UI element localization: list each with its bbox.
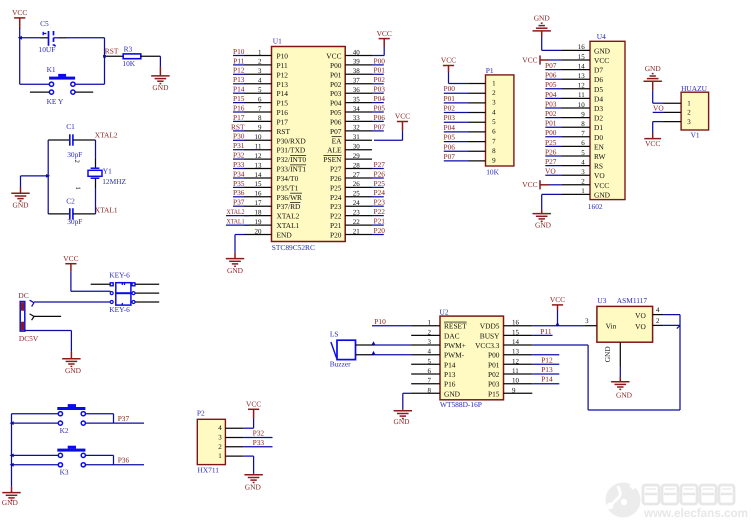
pin 5 P14 of U1 (244, 86, 288, 98)
svg-text:P21: P21 (374, 217, 386, 226)
svg-text:8: 8 (581, 120, 585, 128)
svg-text:P15: P15 (488, 389, 500, 398)
pin 8 GND of U2 (411, 386, 460, 398)
wire net P11 at U2 pin 15 (532, 327, 552, 336)
pin 3 of P2 (218, 434, 243, 442)
svg-text:GND: GND (535, 220, 552, 229)
svg-text:GND: GND (245, 482, 262, 491)
power VCC (U4 pin 2) (522, 180, 562, 189)
svg-text:VO: VO (594, 171, 605, 180)
wire U2 VDD5 pin 16 to U3 Vin (532, 325, 584, 327)
pin 7 P16 of U1 (244, 105, 288, 117)
svg-text:P03: P03 (330, 89, 342, 98)
pin 3 Vin of U3 (584, 317, 616, 331)
svg-text:VO: VO (545, 167, 556, 176)
pin 12 D5 of U4 (562, 82, 604, 94)
wire C5 to RST node (54, 38, 105, 84)
pin 26 P25 of U1 (330, 180, 372, 192)
svg-text:P22: P22 (374, 207, 386, 216)
svg-text:KEY-6: KEY-6 (109, 270, 130, 279)
pin 3 of V1 (663, 118, 691, 126)
svg-text:P31: P31 (233, 141, 245, 150)
wire U2 GND pin 8 to ground (403, 393, 412, 411)
svg-text:P10: P10 (374, 317, 386, 326)
wire K2/K3 ground rail (11, 414, 13, 487)
svg-text:2: 2 (73, 160, 80, 164)
svg-text:P22: P22 (330, 212, 342, 221)
svg-text:ASM1117: ASM1117 (617, 296, 648, 305)
svg-text:EN: EN (594, 142, 605, 151)
switch KEY-6 (109, 270, 135, 314)
svg-text:P07: P07 (330, 127, 342, 136)
svg-text:2: 2 (218, 443, 222, 451)
pin 31 EA of U1 (332, 133, 372, 145)
svg-text:P01: P01 (545, 119, 557, 128)
svg-text:WT588D-16P: WT588D-16P (440, 400, 482, 409)
wire K1 lower-right stub (75, 91, 93, 93)
svg-text:3: 3 (687, 118, 691, 126)
svg-text:P20: P20 (374, 226, 386, 235)
svg-text:P13: P13 (541, 365, 553, 374)
svg-text:1: 1 (74, 186, 81, 189)
pin 4 VO of U3 (635, 306, 663, 320)
svg-text:7: 7 (258, 105, 262, 113)
svg-text:HUAZU: HUAZU (681, 84, 708, 93)
wire net P21 at U1 pin 22 (372, 217, 386, 226)
svg-text:10: 10 (578, 101, 586, 109)
svg-text:P24: P24 (374, 188, 386, 197)
svg-text:27: 27 (353, 171, 361, 179)
ground GND (U1 pin 20) (226, 259, 244, 275)
wire net P07 at U4 pin 14 (545, 61, 562, 70)
svg-text:KEY-6: KEY-6 (109, 305, 130, 314)
svg-text:24: 24 (353, 199, 361, 207)
svg-text:VCC: VCC (550, 295, 565, 304)
wire V1 pin 1 to GND (653, 81, 664, 103)
svg-text:5: 5 (428, 357, 432, 365)
wire net P04 at P1 pin 6 (444, 123, 469, 132)
svg-text:8: 8 (428, 386, 432, 394)
wire net P20 at U1 pin 21 (372, 226, 386, 235)
svg-text:P11: P11 (540, 327, 552, 336)
svg-text:C1: C1 (66, 122, 75, 131)
wire net P04 at U4 pin 11 (545, 90, 562, 99)
pin 9 of P1 (468, 157, 496, 165)
svg-text:15: 15 (512, 328, 520, 336)
pin 6 of P1 (468, 128, 496, 136)
svg-text:GND: GND (616, 391, 633, 400)
svg-text:16: 16 (512, 319, 520, 327)
svg-text:30: 30 (353, 143, 361, 151)
pin 15 BUSY of U2 (480, 328, 533, 340)
svg-text:13: 13 (512, 348, 520, 356)
svg-text:P2: P2 (197, 409, 205, 418)
pin 19 XTAL1 of U1 (244, 218, 299, 230)
svg-text:P14: P14 (541, 375, 553, 384)
svg-text:XTAL2: XTAL2 (227, 209, 245, 216)
svg-text:13: 13 (578, 72, 586, 80)
svg-text:www.elecfans.com: www.elecfans.com (643, 506, 748, 520)
svg-text:VCC: VCC (594, 181, 609, 190)
resistor network P1 10K body (486, 66, 514, 177)
pin 10 D3 of U4 (562, 101, 604, 113)
pin 4 of P2 (218, 424, 243, 432)
svg-text:14: 14 (578, 62, 586, 70)
regulator U3 ASM1117 body (597, 296, 653, 342)
wire net P07 at P1 pin 9 (444, 152, 469, 161)
svg-text:P11: P11 (277, 61, 289, 70)
pin 5 RW of U4 (562, 149, 606, 161)
svg-text:Y1: Y1 (103, 167, 112, 176)
pin 8 P17 of U1 (244, 114, 288, 126)
module V1 HUAZU body (681, 84, 709, 139)
svg-text:1: 1 (492, 79, 496, 87)
svg-text:4: 4 (492, 108, 496, 116)
wire K2 left connections (12, 414, 59, 423)
svg-text:P36: P36 (118, 455, 130, 464)
svg-text:P14: P14 (444, 360, 456, 369)
svg-text:P03: P03 (545, 99, 557, 108)
svg-text:P20: P20 (330, 231, 342, 240)
pin 10 P03 of U2 (488, 377, 532, 389)
svg-text:P27: P27 (545, 157, 557, 166)
svg-text:VCC: VCC (522, 180, 537, 189)
svg-text:P31/TXD: P31/TXD (277, 146, 306, 155)
svg-text:U2: U2 (440, 307, 449, 316)
wire net P01 at U4 pin 8 (545, 119, 562, 128)
svg-text:13: 13 (255, 161, 263, 169)
svg-text:2: 2 (428, 328, 432, 336)
svg-text:30pF: 30pF (67, 150, 82, 159)
svg-text:ALE: ALE (327, 146, 342, 155)
svg-text:26: 26 (353, 180, 361, 188)
svg-text:11: 11 (512, 367, 519, 375)
svg-text:Vin: Vin (606, 321, 617, 330)
wire net P25 at U4 pin 6 (545, 138, 562, 147)
wire net P36 at U1 pin 16 (233, 188, 245, 197)
svg-text:10UF: 10UF (39, 45, 56, 54)
wire U1 END pin 20 to GND (235, 235, 245, 259)
svg-text:D2: D2 (594, 114, 603, 123)
svg-text:15: 15 (255, 180, 263, 188)
wire net P35 at U1 pin 15 (233, 179, 245, 188)
svg-text:GND: GND (65, 366, 82, 375)
svg-text:D3: D3 (594, 104, 603, 113)
svg-text:40: 40 (353, 48, 361, 56)
svg-text:38: 38 (353, 67, 361, 75)
svg-text:P12: P12 (541, 355, 553, 364)
pin 37 P02 of U1 (330, 77, 372, 89)
pin 5 P14 of U2 (411, 357, 456, 369)
svg-text:5: 5 (492, 118, 496, 126)
pin 1 RESET of U2 (411, 319, 467, 331)
svg-text:4: 4 (428, 348, 432, 356)
wire net P02 at U1 pin 37 (372, 75, 386, 84)
svg-text:P27: P27 (330, 165, 342, 174)
pin 21 P20 of U1 (330, 227, 372, 239)
pin 29 PSEN of U1 (323, 152, 372, 164)
pin 3 P12 of U1 (244, 67, 288, 79)
svg-text:PSEN: PSEN (323, 155, 342, 164)
svg-text:P01: P01 (374, 66, 386, 75)
ground GND (P2 pin 1) (244, 475, 262, 492)
ground GND (V1 pin 1) (644, 64, 662, 81)
svg-text:P14: P14 (277, 89, 289, 98)
svg-text:P16: P16 (277, 108, 289, 117)
wire K3 left connections (12, 455, 59, 464)
wire net P05 at U4 pin 12 (545, 80, 562, 89)
wire net P36 label (118, 455, 130, 464)
wire net P17 at U1 pin 8 (233, 113, 245, 122)
svg-text:30pF: 30pF (67, 217, 82, 226)
svg-text:33: 33 (353, 114, 361, 122)
wire net P13 at U1 pin 4 (233, 75, 245, 84)
svg-text:XTAL2: XTAL2 (95, 131, 118, 140)
svg-text:VCC: VCC (326, 52, 341, 61)
wire net P12 at U1 pin 3 (233, 66, 245, 75)
svg-text:D0: D0 (594, 133, 603, 142)
svg-text:17: 17 (255, 199, 263, 207)
svg-text:P16: P16 (444, 380, 456, 389)
wire net P14 at U1 pin 5 (233, 85, 245, 94)
svg-text:6: 6 (428, 367, 432, 375)
svg-text:P16: P16 (233, 103, 245, 112)
wire VCC to P1 pin 1 (449, 66, 469, 84)
wire net P33 at U1 pin 13 (233, 160, 245, 169)
wire net P37 at U1 pin 17 (233, 198, 245, 207)
pin 2 of P1 (468, 89, 496, 97)
svg-text:RST: RST (105, 46, 119, 55)
wire U2 VCC3.3 pin 14 to U3 output loop (532, 315, 680, 410)
wire V1 pin 3 to VCC (653, 122, 664, 139)
svg-text:35: 35 (353, 95, 361, 103)
pin 16 VDD5 of U2 (480, 319, 533, 331)
wire net XTAL2 at U1 pin 18 (226, 209, 249, 216)
svg-text:VDD5: VDD5 (480, 322, 500, 331)
pin 25 P24 of U1 (330, 190, 372, 202)
pin 2 VO of U3 (635, 317, 663, 331)
svg-text:RST: RST (277, 127, 291, 136)
wire VCC rail to C5 left plate (20, 37, 49, 39)
wire net VO at V1 pin 2 (653, 104, 665, 113)
svg-text:VO: VO (635, 322, 646, 331)
svg-text:V1: V1 (691, 130, 700, 139)
pin 16 GND of U4 (562, 43, 611, 55)
voice chip U2 WT588D-16P body (440, 307, 504, 409)
svg-text:23: 23 (353, 208, 361, 216)
pin 13 P33/INT1 of U1 (244, 161, 306, 173)
svg-text:P32: P32 (233, 151, 245, 160)
svg-text:P13: P13 (444, 370, 456, 379)
ground GND (U4 pin 1, bottom) (533, 214, 552, 230)
svg-text:P37: P37 (118, 414, 130, 423)
svg-text:10: 10 (512, 377, 520, 385)
svg-text:36: 36 (353, 86, 361, 94)
svg-text:C2: C2 (66, 197, 75, 206)
pin 3 VO of U4 (562, 168, 606, 180)
svg-text:DC5V: DC5V (19, 334, 39, 343)
svg-text:P00: P00 (444, 84, 456, 93)
svg-text:2: 2 (656, 317, 660, 325)
svg-text:28: 28 (353, 161, 361, 169)
svg-text:P05: P05 (330, 108, 342, 117)
wire K3 to net P36 (85, 455, 144, 464)
wire net P26 at U4 pin 5 (545, 147, 562, 156)
wire net VO at U4 pin 3 (545, 167, 562, 176)
svg-text:GND: GND (645, 64, 662, 73)
svg-text:2: 2 (687, 109, 691, 117)
svg-text:P30: P30 (233, 132, 245, 141)
pin 4 of P1 (468, 108, 496, 116)
svg-text:12: 12 (512, 357, 520, 365)
pin 2 DAC of U2 (411, 328, 459, 340)
svg-text:1: 1 (687, 99, 691, 107)
svg-text:14: 14 (255, 171, 263, 179)
svg-text:P07: P07 (444, 152, 456, 161)
svg-text:P17: P17 (277, 117, 289, 126)
pin 15 P35/T1 of U1 (244, 180, 298, 192)
svg-text:P34: P34 (233, 169, 245, 178)
resistor R3 10K (122, 44, 140, 68)
pin 34 P05 of U1 (330, 105, 372, 117)
svg-text:P25: P25 (374, 179, 386, 188)
wire buzzer to U2 PWM- (356, 351, 412, 355)
svg-text:U1: U1 (273, 37, 282, 46)
pin 14 P34/T0 of U1 (244, 171, 298, 183)
svg-text:KE Y: KE Y (47, 97, 64, 106)
pin 13 D6 of U4 (562, 72, 604, 84)
wire P2 pin 1 to GND (244, 456, 254, 475)
svg-text:P05: P05 (545, 80, 557, 89)
pin 39 P00 of U1 (330, 58, 372, 70)
svg-text:GND: GND (594, 46, 611, 55)
svg-text:9: 9 (258, 124, 262, 132)
pin 2 VCC of U4 (562, 178, 610, 190)
svg-text:P02: P02 (545, 109, 557, 118)
wire net P23 at U1 pin 24 (372, 198, 386, 207)
svg-text:21: 21 (353, 227, 361, 235)
pin 11 P31/TXD of U1 (244, 143, 306, 155)
svg-text:4: 4 (656, 306, 660, 314)
power VCC (V1 pin 3) (644, 139, 661, 148)
svg-text:VCC: VCC (395, 112, 410, 121)
svg-text:RST: RST (231, 122, 245, 131)
wire net P03 at P1 pin 5 (444, 113, 469, 122)
mcu U1 STC89C52RC body (272, 37, 346, 252)
svg-text:P25: P25 (330, 183, 342, 192)
svg-text:P37/RD: P37/RD (277, 202, 301, 211)
svg-text:P02: P02 (488, 370, 500, 379)
wire crystal right rail lower (95, 178, 97, 214)
svg-text:P02: P02 (374, 75, 386, 84)
pin 7 D0 of U4 (562, 130, 604, 142)
pin 3 PWM+ of U2 (411, 338, 466, 350)
svg-text:RW: RW (594, 152, 606, 161)
svg-text:2: 2 (492, 89, 496, 97)
wire net P06 at U4 pin 13 (545, 71, 562, 80)
wire net P34 at U1 pin 14 (233, 169, 245, 178)
pin 32 P07 of U1 (330, 124, 372, 136)
svg-text:R3: R3 (124, 44, 133, 53)
pin 9 D2 of U4 (562, 110, 604, 122)
pin 17 P37/RD of U1 (244, 199, 301, 211)
svg-text:GND: GND (227, 266, 244, 275)
pin 15 VCC of U4 (562, 53, 610, 65)
svg-text:10K: 10K (122, 59, 135, 68)
svg-text:4: 4 (218, 424, 222, 432)
wire VCC to KEY-6 middle pin (71, 264, 111, 292)
pin 4 PWM- of U2 (411, 348, 464, 360)
wire net P32 at P2 pin 3 (244, 429, 273, 438)
ground GND (reset circuit) (151, 76, 169, 92)
wire U4 pin 1 to GND (542, 194, 562, 213)
capacitor C2 30pF (48, 186, 95, 226)
wire K2 to net P37 (85, 414, 144, 423)
wire K1 right (75, 83, 105, 85)
svg-text:P14: P14 (233, 85, 245, 94)
wire net P37 label (118, 414, 130, 423)
svg-text:EA: EA (332, 136, 343, 145)
svg-text:VO: VO (635, 311, 646, 320)
svg-text:1602: 1602 (588, 202, 603, 211)
pin 22 P21 of U1 (330, 218, 372, 230)
svg-text:18: 18 (255, 208, 263, 216)
pin 5 of P1 (468, 118, 496, 126)
svg-text:1: 1 (581, 187, 585, 195)
pin 40 VCC of U1 (326, 48, 372, 60)
junction rail at K2 pin (10, 421, 14, 425)
pin 6 EN of U4 (562, 139, 605, 151)
svg-text:PWM-: PWM- (444, 351, 465, 360)
svg-text:P01: P01 (488, 360, 500, 369)
wire net RST at U1 pin 9 (231, 122, 245, 131)
svg-text:P00: P00 (374, 56, 386, 65)
pin 6 P15 of U1 (244, 95, 288, 107)
svg-text:BUSY: BUSY (480, 331, 500, 340)
node XTAL1 (95, 205, 118, 214)
power VCC (U1 pin 40) (377, 29, 392, 39)
svg-text:P06: P06 (330, 117, 342, 126)
pin 1 of P1 (468, 79, 496, 87)
pin 13 P00 of U2 (488, 348, 532, 360)
svg-text:6: 6 (258, 95, 262, 103)
svg-text:P33: P33 (253, 438, 265, 447)
node XTAL2 (95, 131, 118, 140)
svg-text:P03: P03 (444, 113, 456, 122)
pin 1 P10 of U1 (244, 48, 288, 60)
svg-text:Buzzer: Buzzer (330, 360, 351, 369)
svg-text:K1: K1 (47, 65, 56, 74)
svg-text:4: 4 (581, 158, 585, 166)
svg-text:U4: U4 (597, 32, 606, 41)
svg-text:7: 7 (428, 377, 432, 385)
svg-text:DAC: DAC (444, 331, 460, 340)
svg-text:9: 9 (492, 157, 496, 165)
svg-text:P13: P13 (277, 80, 289, 89)
pin 11 D4 of U4 (562, 91, 604, 103)
wire crystal right rail upper (95, 140, 97, 168)
wire net P05 at U1 pin 34 (372, 103, 386, 112)
pin 20 END of U1 (244, 227, 292, 239)
junction VCC rail / C5 branch (18, 36, 22, 40)
svg-text:P23: P23 (374, 198, 386, 207)
svg-text:25: 25 (353, 190, 361, 198)
svg-text:P12: P12 (277, 70, 289, 79)
svg-text:P04: P04 (545, 90, 557, 99)
wire net P14 at U2 pin 10 (532, 375, 559, 384)
pin 3 of P1 (468, 99, 496, 107)
svg-text:GND: GND (444, 389, 461, 398)
